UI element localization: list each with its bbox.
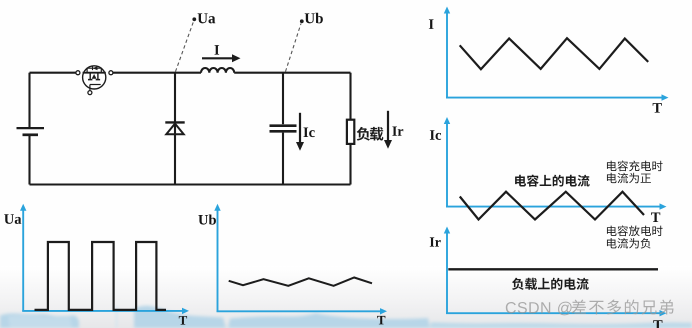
- chart1 label I: [429, 19, 434, 28]
- chart3 label Ir: [430, 237, 441, 246]
- chart3 title 负载上的电流 bold: [512, 278, 589, 290]
- transistor Q1 MOSFET switch (circled): [76, 66, 113, 95]
- capacitor C1 output filter: [270, 73, 297, 185]
- chart5 label T: [377, 316, 385, 325]
- chart5 label Ub: [198, 214, 216, 224]
- label 负载 (load): [357, 127, 384, 141]
- wire: top rail from battery to switch: [30, 72, 77, 74]
- label Ic: [303, 128, 314, 138]
- label node Ua: [198, 13, 216, 23]
- label I: [214, 45, 219, 54]
- chart2 label T: [651, 213, 660, 222]
- label node Ub: [305, 13, 323, 24]
- current arrow I over inductor: [202, 54, 241, 62]
- chart2 axes (Ic vs T) blue: [444, 117, 667, 210]
- node Ua probe: dashed lead and dot: [176, 17, 197, 71]
- wire: inductor to output node and load branch top: [234, 72, 350, 74]
- wire: left rail down to battery: [28, 73, 30, 185]
- wire: switch to inductor: [113, 72, 201, 74]
- chart2 waveform: capacitor current triangle wave about zero: [460, 192, 644, 220]
- chart3 label T: [653, 320, 662, 328]
- chart2 title 电容上的电流 bold: [515, 175, 589, 187]
- label Ir: [392, 127, 403, 136]
- wire: bottom return rail: [30, 183, 351, 185]
- chart3 waveform: constant load current: [448, 268, 658, 270]
- chart2 label Ic: [430, 130, 441, 140]
- current arrow Ic: [296, 113, 304, 151]
- inductor L1 (4 humps): [201, 68, 234, 73]
- chart4 axes (Ua vs T) blue: [20, 204, 189, 314]
- chart5 axes (Ub vs T) blue: [214, 204, 387, 315]
- resistor R1 load box: [347, 73, 354, 185]
- watermark CSDN @差不多的兄弟: [506, 300, 674, 316]
- chart1 axes (I vs T) blue: [444, 7, 669, 101]
- node Ub probe: dashed lead and dot: [286, 19, 304, 71]
- chart5 waveform: Ub output voltage ripple: [229, 278, 372, 286]
- chart4 label T: [179, 316, 187, 325]
- power source V1 battery plates: [17, 128, 45, 135]
- diode D1 freewheeling (pointing up): [165, 73, 184, 185]
- chart2 note 电容充电时 电流为正: [607, 161, 663, 184]
- chart4 label Ua: [4, 214, 21, 224]
- chart3 axes (Ir vs T) blue: [444, 227, 667, 317]
- chart2 note 电容放电时 电流为负: [607, 225, 663, 248]
- chart1 waveform: inductor current triangle ripple: [460, 38, 649, 69]
- current arrow Ir: [384, 111, 392, 149]
- chart4 waveform: Ua square pulse train: [35, 242, 167, 310]
- chart1 label T: [653, 103, 662, 112]
